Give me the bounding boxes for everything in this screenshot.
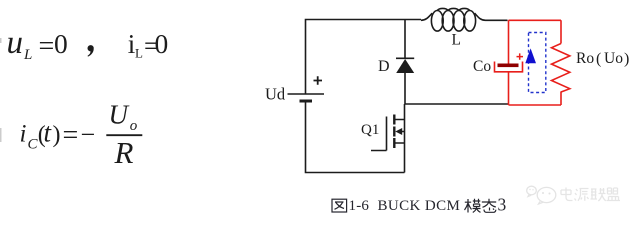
svg-text:Ud: Ud [265, 85, 286, 104]
svg-text:t: t [44, 118, 53, 148]
svg-text:u: u [7, 25, 24, 61]
svg-text:): ) [53, 122, 61, 148]
svg-text:L: L [452, 32, 461, 49]
svg-text:Q1: Q1 [361, 122, 379, 138]
svg-text:L: L [135, 46, 143, 61]
svg-text:Ro: Ro [576, 50, 594, 67]
svg-text:D: D [378, 58, 390, 75]
svg-text:(: ( [596, 51, 601, 68]
svg-text:): ) [624, 51, 629, 68]
svg-text:=: = [39, 31, 55, 62]
svg-text:U: U [109, 100, 130, 130]
svg-text:−: − [81, 120, 96, 149]
svg-text:0: 0 [155, 28, 169, 59]
svg-text:R: R [114, 135, 134, 170]
svg-text:0: 0 [54, 28, 68, 59]
svg-text:i: i [20, 121, 27, 148]
svg-text:o: o [130, 118, 138, 134]
svg-text:1-6: 1-6 [349, 198, 370, 214]
svg-text:3: 3 [498, 195, 507, 215]
svg-text:L: L [23, 47, 32, 63]
svg-text:Uo: Uo [604, 50, 623, 67]
svg-text:=: = [63, 120, 79, 151]
svg-text:BUCK DCM: BUCK DCM [378, 198, 461, 214]
svg-text:Co: Co [473, 58, 491, 75]
